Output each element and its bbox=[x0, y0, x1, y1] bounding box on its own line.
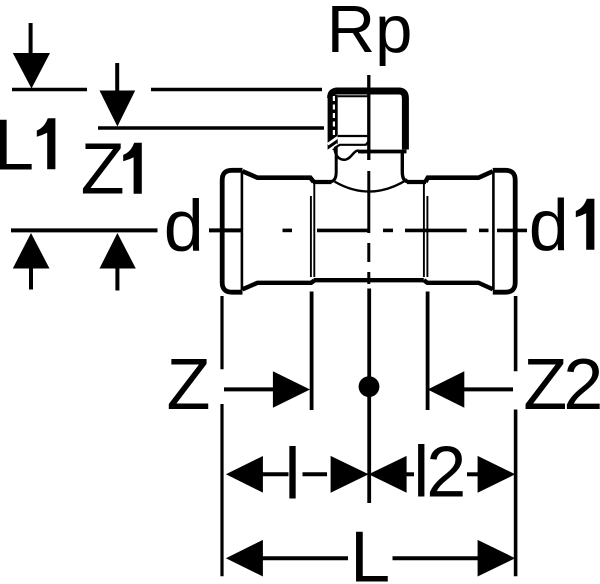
right press socket bottom outline bbox=[424, 280, 493, 289]
left press bead bbox=[222, 170, 242, 292]
branch interior chamfer line bbox=[334, 140, 369, 148]
dimension Z1 top arrow (down) bbox=[100, 63, 136, 127]
branch vertical centerline (upper thick section edge) bbox=[367, 75, 370, 160]
svg-text:d: d bbox=[529, 186, 569, 266]
horizontal centerline dashes across body bbox=[283, 229, 293, 233]
svg-text:L: L bbox=[0, 105, 34, 185]
dimension l2 arrowhead (left, at center) bbox=[369, 456, 407, 493]
left press socket top outline bbox=[243, 171, 314, 182]
dimension Z2 arrowhead (left) bbox=[428, 371, 465, 408]
dimension l arrowhead (right, at center) bbox=[331, 456, 369, 493]
body top edge left of branch bbox=[313, 180, 332, 184]
dimension l leader right bbox=[303, 472, 328, 476]
dimension l leader left bbox=[260, 472, 289, 476]
dimension L1 bottom arrow (up) bbox=[13, 233, 50, 290]
reference line: branch top plane (right segment) bbox=[151, 88, 322, 92]
dimension Z leader bbox=[224, 387, 275, 391]
extension line left socket stop (x=311.6) bbox=[310, 292, 314, 411]
svg-text:Rp: Rp bbox=[327, 0, 413, 67]
reference line: branch top plane (left segment) bbox=[12, 88, 87, 92]
extension line right end (x=515.6) bbox=[514, 296, 518, 371]
left press bead inner line bbox=[241, 172, 244, 290]
left press socket bottom outline bbox=[243, 280, 315, 289]
branch neck right edge with fillet bbox=[402, 153, 409, 182]
dimension L1 top arrow (down) bbox=[13, 23, 50, 89]
svg-text:Z: Z bbox=[81, 130, 125, 210]
right socket end double line bbox=[423, 184, 425, 277]
centerline d (segment into left bead) bbox=[209, 228, 242, 232]
left socket end double line bbox=[310, 196, 312, 277]
branch break wavy line bbox=[334, 148, 369, 160]
extension line left end (x=222) bbox=[220, 296, 223, 369]
dimension L arrowhead (left) bbox=[226, 540, 263, 577]
right press socket top outline bbox=[425, 171, 492, 182]
body top edge right of branch bbox=[407, 180, 426, 184]
extension line right socket stop (x=427.6) bbox=[426, 292, 430, 411]
branch interior top line bbox=[338, 95, 368, 97]
branch thread runout notches bbox=[328, 137, 338, 144]
dimension l arrowhead (left) bbox=[226, 456, 263, 493]
branch neck left edge with fillet bbox=[330, 150, 337, 182]
svg-text:L: L bbox=[350, 518, 390, 584]
dimension l2 leader left bbox=[405, 472, 415, 476]
dimension l2 leader right bbox=[467, 472, 480, 476]
dimension L leader left bbox=[260, 556, 348, 560]
right press bead inner line bbox=[492, 172, 495, 290]
branch thread band (sectioned left wall) bbox=[328, 95, 338, 150]
dimension Z1 bottom arrow (up) bbox=[100, 233, 136, 291]
dimension Z arrowhead (right) bbox=[273, 371, 310, 408]
branch interior thread end line bbox=[338, 135, 369, 137]
reference line: thread gauge plane bbox=[98, 126, 324, 130]
saddle arc branch/body bbox=[335, 179, 408, 191]
svg-text:Z: Z bbox=[167, 345, 211, 425]
svg-text:d: d bbox=[164, 186, 204, 266]
body bottom edge bbox=[314, 278, 424, 282]
branch threaded socket Rp outline bbox=[331, 91, 406, 150]
center reference dot bbox=[359, 376, 380, 397]
right press bead bbox=[493, 170, 515, 292]
center extension line below body bbox=[367, 289, 371, 504]
dimension Z2 leader bbox=[462, 387, 513, 391]
dimension l2 arrowhead (right) bbox=[478, 456, 516, 493]
centerline d (left of body) bbox=[11, 228, 158, 232]
branch thread root dashed line bbox=[333, 96, 335, 137]
branch socket bottom edge (right half) bbox=[358, 150, 407, 154]
dimension L leader right bbox=[393, 556, 480, 560]
svg-text:l: l bbox=[285, 434, 301, 514]
dimension L arrowhead (right) bbox=[478, 540, 516, 577]
svg-text:Z2: Z2 bbox=[523, 345, 600, 425]
branch vertical centerline dashes bbox=[367, 171, 370, 233]
svg-text:l2: l2 bbox=[413, 432, 463, 512]
